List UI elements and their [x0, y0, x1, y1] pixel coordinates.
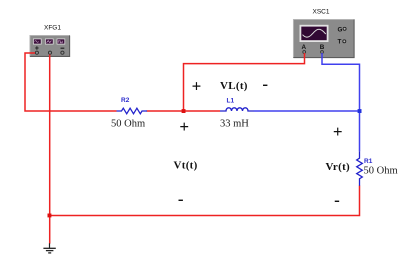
svg-text:+: +: [192, 76, 202, 95]
pin +: [35, 46, 38, 49]
node B (junction L1/R1/scope B): [358, 109, 362, 113]
svg-text:T: T: [338, 38, 342, 45]
wire R1 bottom to ground net: [49, 186, 359, 216]
resistor R1: [357, 151, 398, 185]
svg-text:L1: L1: [227, 98, 235, 105]
node ground junction: [48, 214, 52, 218]
pin -: [61, 47, 65, 49]
node A (junction R2/L1/scope A): [182, 109, 186, 113]
svg-text:33 mH: 33 mH: [220, 119, 249, 130]
resistor R2: [111, 97, 147, 130]
svg-text:B: B: [320, 44, 325, 51]
svg-text:G: G: [338, 27, 343, 34]
wire L1 right to node B: [254, 110, 360, 112]
svg-text:XSC1: XSC1: [313, 8, 330, 15]
ground: [43, 243, 55, 253]
svg-text:R2: R2: [121, 97, 130, 104]
svg-text:R1: R1: [364, 158, 373, 165]
inductor L1: [220, 98, 254, 130]
svg-text:VL(t): VL(t): [220, 80, 248, 92]
wire scope channel B to R1 top: [322, 53, 360, 151]
pin common: [48, 51, 51, 54]
oscilloscope XSC1: [293, 8, 355, 58]
svg-text:+: +: [333, 122, 343, 141]
svg-text:Vt(t): Vt(t): [174, 160, 198, 172]
wire R2 right to L1 left: [147, 110, 221, 112]
svg-text:+: +: [179, 117, 189, 136]
wire from XFG1 common terminal down to ground net: [49, 55, 51, 244]
svg-text:50 Ohm: 50 Ohm: [111, 119, 145, 130]
svg-text:-: -: [334, 191, 340, 210]
svg-text:Vr(t): Vr(t): [326, 161, 351, 173]
svg-text:A: A: [302, 44, 307, 51]
svg-text:XFG1: XFG1: [44, 25, 61, 32]
svg-text:50 Ohm: 50 Ohm: [364, 166, 398, 177]
svg-text:-: -: [178, 190, 184, 209]
function generator XFG1: [30, 25, 71, 57]
wire node to scope channel A: [184, 53, 305, 111]
svg-text:-: -: [262, 75, 268, 94]
wire from XFG1 + terminal to R2: [25, 53, 117, 111]
